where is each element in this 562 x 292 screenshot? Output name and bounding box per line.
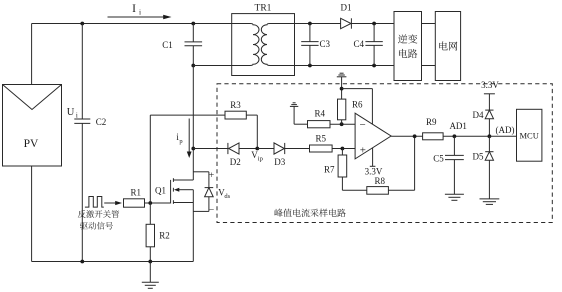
wire TR1 secondary top to inverter (295, 23, 395, 25)
svg-text:R2: R2 (159, 231, 170, 241)
node junction top rail C1 tap (191, 22, 195, 26)
resistor R2 upper lead (149, 203, 151, 224)
svg-text:3.3V: 3.3V (481, 80, 499, 90)
label inverter text (398, 34, 417, 58)
node junction top rail C2 tap (80, 22, 84, 26)
label drive signal line2 (80, 222, 113, 230)
label ip (176, 132, 182, 145)
capacitor C4 (365, 24, 382, 66)
diode D3 (274, 143, 285, 154)
label C4 (354, 39, 365, 49)
svg-text:MCU: MCU (520, 130, 539, 140)
wire R3 right lead to Vip (246, 115, 257, 148)
node junction R2 bottom rail (148, 260, 152, 264)
resistor R2 (146, 224, 154, 247)
MCU box (517, 109, 542, 161)
capacitor C5 upper lead (453, 136, 455, 155)
label R4 (315, 109, 326, 119)
svg-text:ip: ip (258, 156, 263, 163)
label D4 (473, 110, 484, 120)
wire R8 to feedback (388, 189, 414, 191)
wire D5 to ground (488, 160, 490, 199)
wire gate node to R3 (149, 115, 151, 203)
wire 3.3V to D4 (488, 94, 490, 110)
diode D5 (485, 152, 493, 161)
svg-text:D4: D4 (473, 110, 484, 120)
svg-text:C4: C4 (354, 39, 365, 49)
capacitor C1 wire lower (192, 46, 194, 66)
node junction C3 bottom (308, 64, 312, 68)
node junction output (413, 134, 417, 138)
wire inverter to grid upper (422, 23, 436, 25)
wire R5 to plus node (332, 148, 355, 150)
diode D4 (485, 110, 493, 119)
svg-text:TR1: TR1 (255, 4, 272, 14)
label R7 (324, 164, 335, 174)
svg-text:+: + (209, 171, 214, 181)
transformer TR1 primary winding (232, 24, 259, 66)
svg-text:i: i (76, 112, 78, 120)
wire ground to R6 node (341, 77, 343, 99)
transformer TR1 box (232, 14, 295, 76)
capacitor C2 wire upper (81, 24, 83, 120)
wire inverter to grid lower (422, 65, 436, 67)
capacitor C2 wire lower (81, 123, 83, 261)
svg-text:I: I (132, 3, 136, 15)
wire top rail from PV to TR1 (32, 23, 232, 25)
label R9 (426, 117, 437, 127)
label D5 (473, 152, 484, 162)
svg-text:PV: PV (24, 138, 39, 150)
capacitor C2 (74, 119, 90, 123)
label grid text (439, 41, 457, 50)
diode body Vds (205, 188, 214, 197)
resistor R5 (310, 145, 333, 152)
label peak current sampling circuit (274, 209, 345, 217)
node junction C3 top (308, 22, 312, 26)
label R8 (374, 176, 385, 186)
wire Vds loop top (193, 172, 209, 188)
resistor R8 (367, 187, 389, 195)
transistor Q1 body lead (174, 188, 193, 203)
wire R6 to minus node (341, 120, 343, 124)
ground R4 inverted (290, 103, 298, 107)
node junction C2 bottom rail (80, 260, 84, 264)
node junction plus input (341, 147, 345, 151)
svg-text:D2: D2 (230, 157, 241, 167)
wire AD node to D5 (488, 136, 490, 151)
grid box (435, 12, 460, 81)
svg-text:C1: C1 (162, 40, 173, 50)
svg-text:U: U (67, 107, 75, 118)
svg-text:+: + (360, 145, 366, 157)
node junction R6 top (340, 87, 344, 91)
label PV (24, 138, 39, 150)
wire D2 to Vip node (239, 148, 257, 150)
node junction Vip (255, 147, 259, 151)
node junction gate node (148, 201, 152, 205)
label AD paren (496, 125, 515, 135)
label R5 (316, 133, 327, 143)
node junction ip tap (191, 147, 195, 151)
label C5 (433, 153, 444, 163)
resistor R9 (423, 133, 444, 140)
resistor R1 (124, 199, 145, 207)
capacitor C5 (445, 155, 464, 159)
label drive signal line1 (78, 210, 119, 218)
svg-text:R6: R6 (352, 99, 363, 109)
ground D5 (480, 199, 500, 205)
wire Q1 source to bottom rail (192, 203, 194, 262)
label opamp 3.3V (365, 166, 383, 176)
svg-text:AD1: AD1 (449, 121, 467, 131)
svg-text:C3: C3 (320, 39, 331, 49)
capacitor C1 (185, 42, 203, 46)
inverter circuit box (394, 12, 422, 81)
svg-text:(AD): (AD) (496, 125, 515, 135)
transistor Q1 drain lead (173, 179, 193, 181)
node junction minus input (340, 122, 344, 126)
transistor Q1 gate bar (170, 180, 172, 204)
pulse waveform symbol (85, 197, 104, 208)
wire opamp output (391, 135, 423, 137)
label Vip (251, 150, 263, 163)
svg-text:−: − (209, 205, 214, 215)
ground C5 (445, 194, 464, 200)
svg-text:C5: C5 (433, 153, 444, 163)
svg-text:R8: R8 (374, 176, 385, 186)
capacitor C5 lower lead (453, 160, 455, 195)
label R6 (352, 99, 363, 109)
svg-text:C2: C2 (96, 117, 107, 127)
svg-text:R1: R1 (131, 187, 142, 197)
label Q1 (155, 185, 166, 195)
node junction AD clamp (488, 134, 492, 138)
wire bottom rail (32, 261, 194, 263)
wire Q1 drain tap to D2 (193, 148, 228, 150)
label Vds (218, 188, 230, 201)
wire TR1 secondary bottom to inverter (295, 65, 395, 67)
wire D4 to AD node (488, 119, 490, 137)
node junction AD1 (453, 134, 457, 138)
diode D1 (341, 18, 352, 28)
wire R1 to Q1 gate (145, 202, 171, 204)
arrow drive signal (104, 201, 122, 205)
transistor Q1 source lead (173, 202, 193, 204)
label D2 (230, 157, 241, 167)
label C1 (162, 40, 173, 50)
label C3 (320, 39, 331, 49)
transistor Q1 channel segments (172, 178, 174, 204)
svg-text:3.3V: 3.3V (365, 166, 383, 176)
wire R7 to R8 (342, 189, 366, 191)
svg-text:R3: R3 (230, 100, 241, 110)
dashed box peak current sampling circuit (217, 84, 552, 223)
wire ground to R4 (294, 106, 307, 124)
label R2 (159, 231, 170, 241)
resistor R2 lower lead (149, 247, 151, 262)
wire Vds loop bottom (193, 197, 209, 212)
svg-text:R5: R5 (316, 133, 327, 143)
svg-text:R9: R9 (426, 117, 437, 127)
resistor R7 lower lead (341, 177, 343, 190)
label opamp plus (360, 145, 366, 157)
transformer TR1 secondary winding (261, 24, 294, 66)
wire R9 to AD1 (443, 135, 489, 137)
label Ui (67, 107, 78, 120)
resistor R4 (308, 121, 331, 128)
wire D3 to R5 (285, 148, 310, 150)
label TR1 (255, 4, 272, 14)
power rail 3.3V bar (484, 93, 495, 95)
wire PV bottom lead (31, 166, 33, 262)
solar panel PV (3, 85, 62, 167)
svg-text:Q1: Q1 (155, 185, 166, 195)
capacitor C3 (301, 24, 318, 66)
svg-text:ds: ds (224, 193, 230, 200)
wire PV top lead (31, 24, 33, 85)
op-amp supply 3.3V stub (370, 148, 376, 167)
wire feedback vertical (414, 136, 416, 190)
wire R3 left lead (150, 114, 225, 116)
label Ii (132, 3, 141, 17)
capacitor C1 wire upper (192, 24, 194, 42)
label opamp minus (359, 119, 365, 131)
svg-text:D5: D5 (473, 152, 484, 162)
wire R4 to minus node (330, 123, 355, 125)
svg-text:R4: R4 (315, 109, 326, 119)
label R3 (230, 100, 241, 110)
label D1 (341, 3, 352, 13)
wire R6 node to opamp supply (342, 89, 373, 125)
diode D2 (228, 143, 239, 154)
node junction C4 bottom (372, 64, 376, 68)
node junction C1 bottom (191, 64, 195, 68)
wire Vip to D3 (257, 148, 274, 150)
label minus Vds (209, 205, 214, 215)
svg-text:p: p (179, 138, 182, 145)
annotation ip arrow (187, 119, 192, 159)
node junction C4 top (372, 22, 376, 26)
label 3.3V rail (481, 80, 499, 90)
wire C1 bottom to TR1 (193, 65, 231, 67)
op-amp U1 (355, 113, 391, 159)
svg-text:i: i (139, 8, 141, 17)
label plus Vds (209, 171, 214, 181)
ground main (142, 262, 159, 289)
label D3 (274, 157, 285, 167)
label C2 (96, 117, 107, 127)
resistor R3 (225, 111, 246, 119)
svg-text:D3: D3 (274, 157, 285, 167)
label AD1 (449, 121, 467, 131)
label R1 (131, 187, 142, 197)
resistor R7 (338, 155, 347, 177)
label MCU (520, 130, 539, 140)
svg-text:−: − (359, 119, 365, 131)
wire main vertical to Q1 drain (192, 66, 194, 181)
wire AD node to MCU (489, 135, 516, 137)
resistor R6 (338, 99, 346, 120)
ground R6 inverted (337, 73, 347, 77)
svg-text:D1: D1 (341, 3, 352, 13)
svg-text:R7: R7 (324, 164, 335, 174)
resistor R7 upper lead (341, 149, 343, 156)
current arrow Ii (108, 15, 172, 20)
